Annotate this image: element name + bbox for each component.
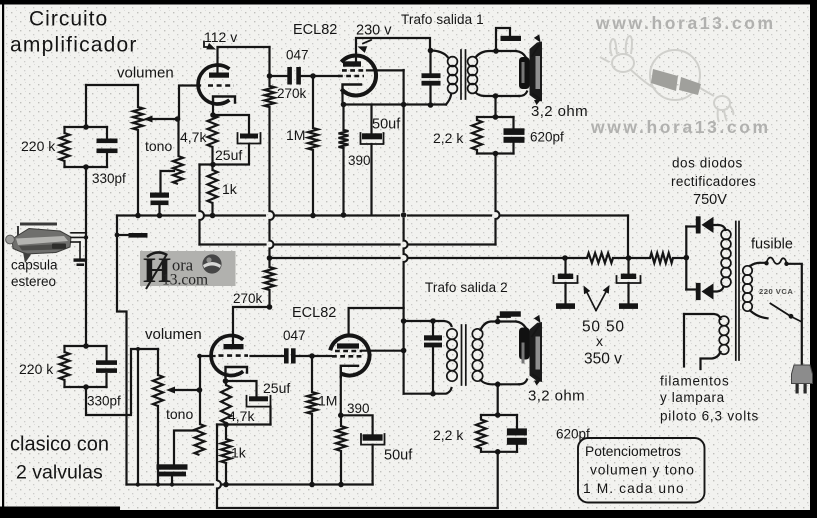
- svg-text:390: 390: [347, 401, 370, 416]
- svg-text:1k: 1k: [231, 445, 247, 461]
- svg-text:330pf: 330pf: [92, 171, 126, 186]
- svg-text:2,2 k: 2,2 k: [433, 130, 464, 146]
- svg-text:2 valvulas: 2 valvulas: [16, 462, 103, 484]
- svg-text:620pf: 620pf: [530, 130, 564, 145]
- svg-text:tono: tono: [145, 138, 172, 154]
- svg-text:047: 047: [283, 328, 306, 343]
- svg-text:25uf: 25uf: [215, 147, 242, 163]
- svg-text:230 v: 230 v: [356, 23, 392, 39]
- svg-text:volumen: volumen: [145, 326, 202, 343]
- svg-text:fusible: fusible: [751, 237, 793, 253]
- svg-text:390: 390: [348, 153, 371, 168]
- svg-text:ECL82: ECL82: [293, 22, 337, 38]
- svg-text:ECL82: ECL82: [292, 305, 336, 321]
- svg-text:1 M. cada uno: 1 M. cada uno: [583, 481, 685, 496]
- svg-text:amplificador: amplificador: [10, 34, 138, 57]
- svg-text:13.com: 13.com: [162, 272, 208, 289]
- svg-text:620pf: 620pf: [556, 427, 590, 442]
- svg-text:estereo: estereo: [11, 274, 56, 289]
- svg-text:220 k: 220 k: [19, 361, 54, 377]
- svg-text:1k: 1k: [222, 181, 238, 197]
- svg-text:4,7k: 4,7k: [228, 408, 255, 424]
- svg-text:clasico con: clasico con: [10, 434, 109, 456]
- svg-text:50uf: 50uf: [384, 448, 413, 464]
- svg-text:1M: 1M: [286, 127, 305, 143]
- svg-text:270k: 270k: [277, 86, 307, 101]
- svg-text:220 k: 220 k: [21, 138, 56, 154]
- svg-text:y lampara: y lampara: [660, 390, 725, 405]
- svg-text:270k: 270k: [233, 291, 263, 306]
- svg-text:3,2 ohm: 3,2 ohm: [531, 103, 588, 120]
- svg-text:25uf: 25uf: [263, 380, 290, 396]
- svg-text:volumen: volumen: [117, 65, 174, 82]
- svg-text:piloto 6,3 volts: piloto 6,3 volts: [660, 409, 759, 424]
- svg-text:Trafo salida 2: Trafo salida 2: [425, 280, 508, 295]
- svg-text:Circuito: Circuito: [29, 8, 108, 31]
- svg-text:1M: 1M: [318, 393, 337, 409]
- svg-text:50uf: 50uf: [372, 117, 401, 133]
- svg-text:x: x: [596, 333, 603, 349]
- svg-text:750V: 750V: [693, 192, 727, 208]
- svg-text:filamentos: filamentos: [660, 374, 730, 389]
- svg-text:dos diodos: dos diodos: [672, 156, 743, 171]
- svg-text:112 v: 112 v: [204, 29, 237, 45]
- svg-text:220 VCA: 220 VCA: [759, 287, 793, 296]
- svg-text:350 v: 350 v: [584, 351, 622, 368]
- svg-text:4,7k: 4,7k: [180, 129, 207, 145]
- svg-text:330pf: 330pf: [87, 394, 121, 409]
- svg-text:www.hora13.com: www.hora13.com: [595, 13, 776, 33]
- svg-text:tono: tono: [166, 406, 193, 422]
- svg-text:rectificadores: rectificadores: [671, 174, 756, 189]
- svg-text:Trafo salida 1: Trafo salida 1: [401, 12, 484, 27]
- svg-text:50 50: 50 50: [582, 319, 625, 336]
- svg-text:047: 047: [286, 48, 309, 63]
- svg-text:2,2 k: 2,2 k: [433, 427, 464, 443]
- svg-text:www.hora13.com: www.hora13.com: [590, 117, 771, 137]
- svg-text:3,2 ohm: 3,2 ohm: [528, 388, 585, 405]
- svg-text:Potenciometros: Potenciometros: [585, 444, 681, 459]
- svg-text:capsula: capsula: [11, 258, 58, 273]
- svg-text:volumen y tono: volumen y tono: [590, 463, 695, 478]
